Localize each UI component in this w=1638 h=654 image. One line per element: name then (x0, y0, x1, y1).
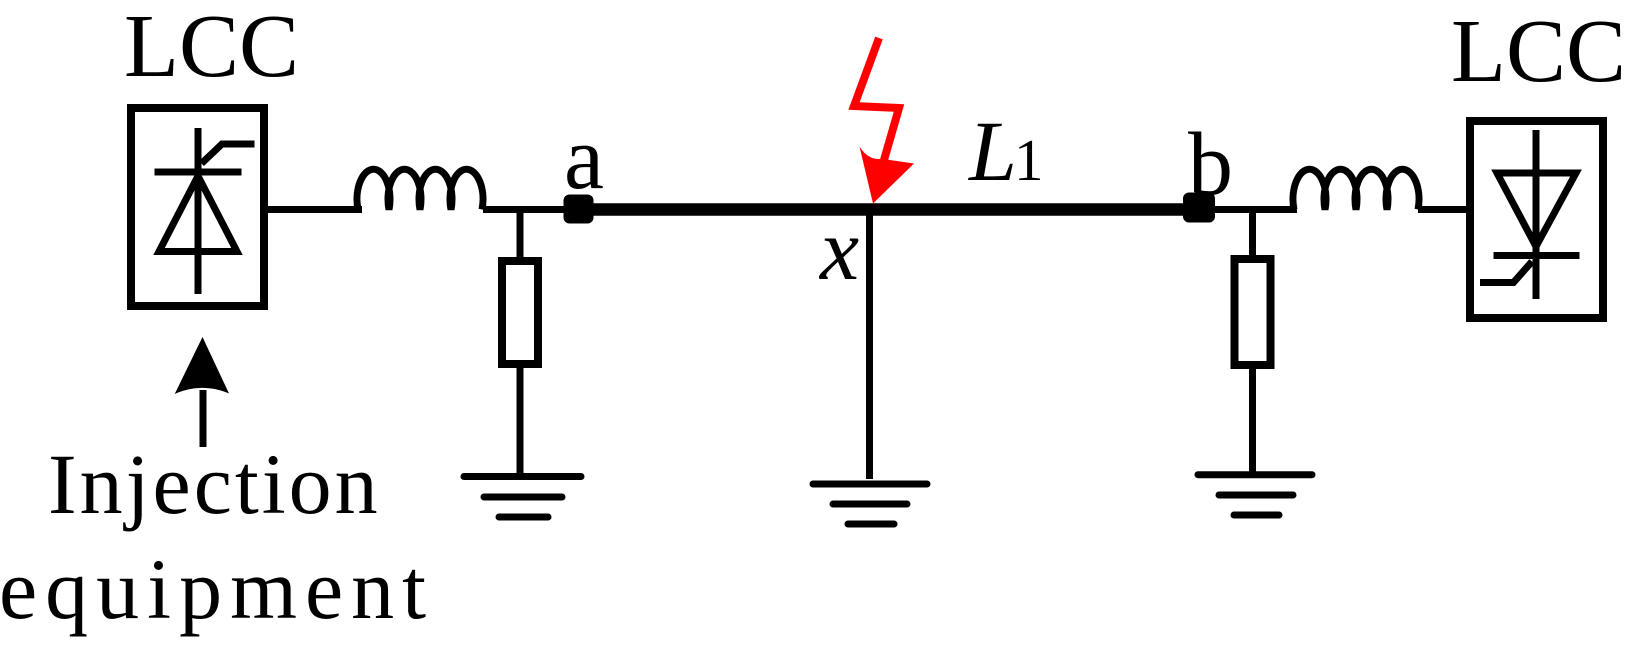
svg-text:x: x (818, 202, 859, 299)
ground (middle, at fault branch) (813, 484, 927, 524)
wire: right resistor to ground (1249, 365, 1256, 474)
node b (junction square) (1183, 193, 1215, 223)
fault lightning arrow (red) (854, 38, 914, 204)
thyristor V1 (left converter, pointing up) (155, 128, 255, 294)
injection arrow (up, into left converter) (175, 337, 229, 447)
converter box (left LCC) (131, 108, 264, 306)
wire: left converter to smoothing reactor (264, 206, 362, 213)
fault branch wire at x (866, 212, 873, 479)
svg-text:L: L (967, 103, 1017, 199)
resistor R1 (left shunt) (502, 261, 538, 364)
wire: left shunt drop junction (517, 210, 524, 262)
wire: node b to right reactor (1200, 206, 1297, 213)
converter box (right LCC) (1470, 121, 1603, 318)
thyristor V2 (right converter, pointing down) (1480, 130, 1580, 299)
transmission line L1 (thick line a to b) (578, 203, 1200, 216)
svg-text:LCC: LCC (124, 0, 299, 96)
svg-text:equipment: equipment (0, 541, 434, 637)
resistor R2 (right shunt) (1235, 259, 1271, 365)
svg-text:LCC: LCC (1451, 2, 1626, 101)
svg-text:1: 1 (1014, 127, 1044, 193)
smoothing reactor (right coil) (1293, 169, 1419, 209)
smoothing reactor (left coil) (357, 169, 483, 209)
node a (junction square) (564, 195, 594, 224)
svg-text:Injection: Injection (48, 436, 381, 532)
ground (right) (1198, 475, 1312, 515)
svg-text:b: b (1188, 115, 1233, 214)
wire: left resistor to ground (517, 364, 524, 476)
wire: right shunt drop junction (1249, 210, 1256, 262)
svg-text:a: a (564, 109, 604, 208)
wire: right reactor to right converter (1418, 206, 1470, 213)
ground (left) (464, 477, 581, 518)
wire: left reactor to node a (483, 206, 566, 213)
